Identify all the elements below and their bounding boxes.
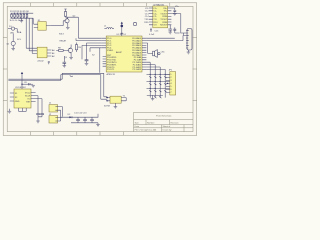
diode D2 with circle body — [6, 34, 15, 49]
power VCC node above U1 — [121, 22, 124, 36]
ground under D2 — [11, 49, 15, 51]
U1 inner mid texts — [107, 49, 123, 54]
svg-text:U2 MAX232: U2 MAX232 — [153, 3, 165, 6]
wire U2 right down — [171, 14, 180, 34]
svg-text:T1OUT: T1OUT — [160, 13, 168, 15]
svg-text:File C:\Design\mcu.ddb: File C:\Design\mcu.ddb — [135, 130, 157, 132]
svg-text:U3 DS1302: U3 DS1302 — [15, 87, 27, 89]
connector J3 serial port — [186, 29, 192, 51]
wire three verticals down to U4 — [26, 18, 37, 53]
ground under Y1 — [114, 107, 118, 109]
op-amp U1 microcontroller body — [106, 36, 142, 72]
svg-text:P3.5/T1: P3.5/T1 — [107, 69, 115, 71]
svg-text:0.1uF: 0.1uF — [149, 34, 155, 36]
title block — [134, 112, 194, 131]
svg-text:I/O: I/O — [28, 98, 31, 100]
wire bundle into U1 left pins — [76, 38, 102, 59]
capacitor C4 with ground mid — [63, 56, 67, 66]
U2 left net labels — [144, 8, 149, 24]
capacitor C13 — [90, 117, 94, 123]
junction below U2 — [150, 29, 151, 30]
svg-text:R1 R2 R3 R4 R5 R6: R1 R2 R3 R4 R5 R6 — [10, 11, 30, 13]
wire lower gnd rail — [71, 122, 98, 124]
ground below rail cluster — [20, 18, 24, 23]
ground keypad — [151, 95, 155, 100]
battery BT1 yellow boxes bottom — [49, 105, 58, 112]
svg-text:TXD: TXD — [144, 19, 149, 21]
JP1 junction dot — [167, 83, 168, 84]
connector JP1 yellow strip — [170, 72, 176, 95]
U2 left pins — [149, 8, 153, 25]
wire K1 to Q2 base — [51, 25, 64, 27]
U1 right pin stubs — [142, 38, 146, 69]
svg-text:T1I: T1I — [153, 19, 156, 21]
diode D3 beside U3 — [21, 82, 31, 86]
svg-text:R1O: R1O — [153, 22, 158, 24]
wire top-left rail — [11, 13, 34, 18]
wires from J1 J2 — [58, 107, 63, 121]
svg-text:R1IN: R1IN — [162, 16, 167, 18]
keypad matrix wires — [147, 71, 170, 98]
svg-text:Drawn by:: Drawn by: — [163, 129, 173, 132]
ground C6 — [168, 32, 172, 34]
svg-text:XTAL1: XTAL1 — [107, 49, 114, 52]
wire U1 P0 rows to right — [146, 36, 183, 44]
capacitor C3 on U4 output — [48, 62, 50, 65]
IC U3 display driver — [14, 89, 31, 108]
U4 right net labels — [52, 49, 55, 58]
U3 left pins — [10, 93, 14, 101]
svg-text:RST: RST — [26, 101, 31, 103]
U3 inner texts — [15, 93, 20, 103]
opto U4 mid-left yellow box — [37, 47, 47, 58]
connector P1 left edge — [8, 26, 17, 35]
U3 bottom pins — [19, 108, 27, 111]
J3 ground — [187, 50, 191, 54]
resistor R7 above Q2 — [64, 9, 78, 18]
U2 pin texts — [153, 8, 158, 27]
sheet background — [0, 0, 200, 139]
svg-text:C1-: C1- — [153, 11, 157, 13]
ground for C5 — [173, 13, 177, 15]
svg-text:SCLK: SCLK — [25, 95, 31, 97]
net label flag — [70, 75, 73, 76]
svg-text:T2I: T2I — [153, 25, 156, 27]
ground under C4 — [63, 66, 67, 68]
capacitor C11 — [76, 117, 80, 123]
connector J2 lower yellow box — [49, 116, 58, 123]
svg-text:Number: Number — [147, 121, 155, 124]
wire U1 right pins to keypad rows — [145, 74, 147, 88]
emitter wire and ground for Q2 — [67, 24, 69, 28]
ground under Q3 — [69, 57, 73, 59]
wire Y1 to ground — [114, 103, 116, 106]
inductor L1 top mid — [104, 26, 114, 29]
svg-text:RELAY: RELAY — [60, 40, 67, 43]
wire rail to K1 — [32, 18, 34, 24]
capacitor C10 — [38, 114, 44, 121]
capacitor C6 below U2 — [168, 25, 172, 32]
J2 inner pin marks — [55, 117, 57, 121]
svg-text:C2-: C2- — [153, 16, 157, 18]
U1 left pin stubs — [102, 38, 106, 66]
ground for D3 — [31, 84, 35, 87]
relay K1 top-left yellow box — [38, 22, 46, 31]
svg-text:SDA: SDA — [17, 31, 22, 34]
svg-text:Sheet of: Sheet of — [163, 125, 171, 128]
power VCC arrow above U3 — [21, 72, 23, 89]
U2 right pins — [168, 8, 172, 25]
keypad switch marks — [149, 76, 166, 98]
svg-text:RXD: RXD — [144, 22, 149, 24]
op-amp U2 driver IC top right — [153, 6, 168, 28]
J1 inner pin marks — [55, 107, 57, 111]
transistor Q3 — [64, 45, 73, 59]
svg-text:C11 C12 C13: C11 C12 C13 — [74, 113, 87, 115]
U3 right pins — [31, 93, 42, 102]
buzzer LS1 — [153, 50, 166, 58]
svg-text:AT89C51: AT89C51 — [107, 73, 116, 76]
node circle NC — [133, 22, 136, 25]
K1 pins — [34, 24, 51, 27]
svg-text:LED: LED — [10, 32, 15, 34]
svg-text:P2.5/A13: P2.5/A13 — [133, 68, 142, 71]
wire long riser to xtal — [99, 48, 101, 73]
wire bottom power rail — [61, 116, 99, 118]
svg-text:24C02: 24C02 — [37, 60, 44, 62]
capacitor C5 right of U2 — [171, 8, 176, 13]
svg-text:VCC2: VCC2 — [25, 92, 31, 94]
ground bottom mid — [96, 125, 100, 127]
svg-text:R2IN: R2IN — [162, 22, 167, 24]
rail junction dots — [14, 13, 28, 19]
wire long bottom bus — [8, 73, 107, 97]
capacitor C9 — [36, 114, 40, 117]
svg-text:32768: 32768 — [104, 105, 111, 107]
wire collector bus down — [77, 17, 79, 38]
U1 pin name texts left column — [107, 38, 117, 71]
capacitor C7 below U2 — [173, 27, 179, 33]
capacitor C2 drop — [85, 47, 89, 64]
wire second bus line — [8, 75, 107, 100]
ground left of U3 — [8, 109, 12, 113]
transistor Q2 — [59, 15, 76, 35]
U4 pins right — [47, 50, 51, 56]
wire U3 right risers — [38, 96, 42, 114]
svg-text:GND: GND — [15, 101, 20, 103]
U1 pin name texts right column — [132, 37, 142, 71]
crystal Y1 yellow box — [110, 96, 121, 103]
svg-text:VS-: VS- — [164, 11, 168, 13]
resistor array R1-R6 on rail — [11, 13, 28, 18]
border frames — [3, 3, 197, 136]
svg-text:R2OUT: R2OUT — [160, 25, 168, 27]
diode D4 on rail — [68, 114, 72, 118]
svg-text:Revision: Revision — [171, 122, 180, 124]
keypad junction dots — [150, 74, 166, 89]
wire U1 pins to keypad columns — [146, 62, 165, 71]
wire U2 to J3 — [181, 33, 186, 36]
crystal Y1 pins and dots — [106, 97, 126, 102]
svg-text:ALE/P: ALE/P — [116, 51, 123, 54]
capacitor C12 — [83, 117, 87, 123]
wire riser to buzzer — [148, 43, 153, 53]
JP1 inner pin marks — [170, 74, 172, 94]
svg-text:Protel Schematic: Protel Schematic — [156, 115, 172, 118]
wire U3 bottom to gnd rail — [19, 110, 27, 112]
svg-text:T2OUT: T2OUT — [160, 19, 168, 21]
ground under C9 C10 — [36, 121, 40, 123]
ground under C2 — [85, 63, 89, 65]
JP1 left pin stubs — [166, 74, 170, 92]
resistor R9 pullup — [75, 43, 81, 53]
resistor R8 base of Q3 — [56, 47, 66, 51]
